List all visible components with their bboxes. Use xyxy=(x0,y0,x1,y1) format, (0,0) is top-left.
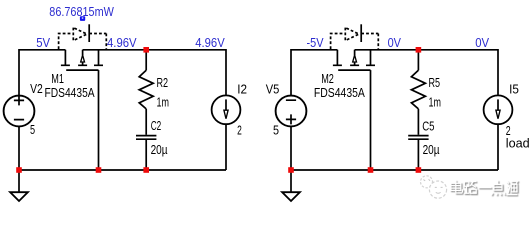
svg-text:5: 5 xyxy=(273,124,279,138)
svg-text:4.96V: 4.96V xyxy=(195,36,225,50)
svg-text:1m: 1m xyxy=(157,96,170,110)
svg-text:FDS4435A: FDS4435A xyxy=(314,86,366,100)
svg-text:M1: M1 xyxy=(51,72,64,86)
svg-text:R5: R5 xyxy=(429,76,441,90)
svg-text:R2: R2 xyxy=(157,76,169,90)
svg-text:load: load xyxy=(506,137,530,151)
svg-text:86.76815mW: 86.76815mW xyxy=(49,5,114,19)
svg-text:I2: I2 xyxy=(237,83,247,97)
svg-text:2: 2 xyxy=(237,123,242,137)
svg-text:-5V: -5V xyxy=(307,36,325,50)
svg-text:5V: 5V xyxy=(36,36,50,50)
svg-text:4.96V: 4.96V xyxy=(107,36,137,50)
svg-text:FDS4435A: FDS4435A xyxy=(45,86,96,100)
svg-text:1m: 1m xyxy=(429,96,442,110)
svg-text:20µ: 20µ xyxy=(151,143,168,157)
svg-text:0V: 0V xyxy=(388,36,402,50)
svg-text:0V: 0V xyxy=(475,36,489,50)
svg-text:V5: V5 xyxy=(266,82,280,96)
svg-text:M2: M2 xyxy=(321,72,334,86)
svg-text:20µ: 20µ xyxy=(423,143,440,157)
svg-text:V2: V2 xyxy=(30,82,43,96)
svg-text:I5: I5 xyxy=(509,83,519,97)
svg-text:C5: C5 xyxy=(422,119,434,133)
svg-text:C2: C2 xyxy=(151,119,162,133)
svg-text:5: 5 xyxy=(30,123,35,137)
